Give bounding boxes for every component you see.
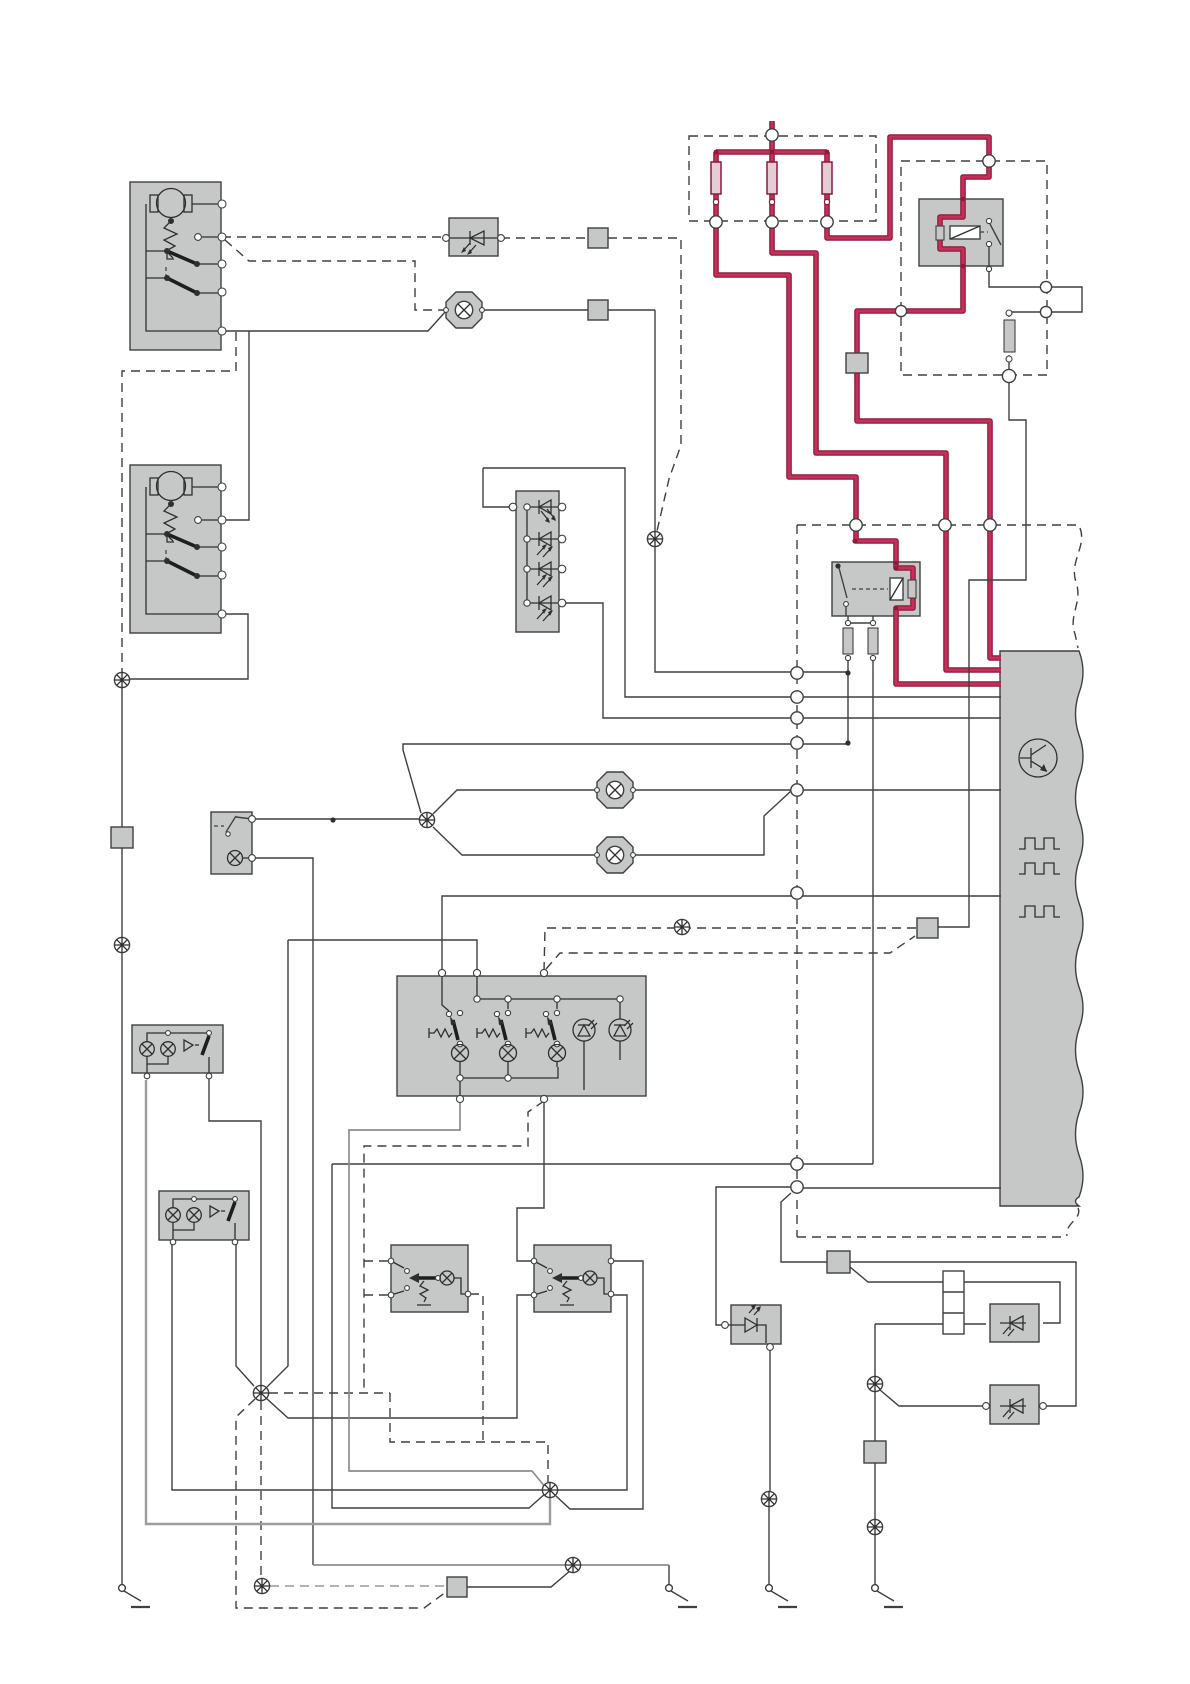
wire module in y894	[442, 896, 1001, 971]
splice C4a	[254, 1578, 269, 1593]
wire ground B lower	[768, 1507, 770, 1584]
splice gB	[761, 1491, 776, 1506]
wire fuse bus (red)	[716, 149, 827, 155]
wire to fuse F5	[1009, 312, 1040, 317]
relay K1 coil	[950, 226, 980, 239]
wire fuse F3 down	[847, 661, 849, 744]
node relay K1 in	[983, 155, 995, 167]
connector C stack	[943, 1271, 964, 1334]
wire motor box to ground bus (dashed)	[122, 332, 236, 673]
switch S2 section 3	[556, 999, 558, 1009]
wire connector to diode D7	[850, 1267, 1060, 1323]
ground G1	[119, 1585, 150, 1607]
fuse F3	[843, 628, 853, 654]
splice ground bus A	[114, 672, 129, 687]
diode D8 symbol	[1000, 1399, 1026, 1413]
wire ground C chain	[874, 1391, 876, 1584]
relay K1 link (dashed)	[980, 231, 988, 233]
wire ground bus gray y1565	[313, 1564, 669, 1566]
splice diode net	[647, 531, 662, 546]
diode unit box D0	[449, 218, 498, 256]
wire ground bus left	[121, 687, 123, 1585]
headlamp switch box S2	[397, 976, 646, 1096]
lamp H1	[595, 772, 636, 808]
diode box D7	[990, 1304, 1039, 1342]
switch box S3	[391, 1245, 468, 1312]
connector J1	[588, 228, 608, 248]
wire fuse F4 down	[872, 661, 874, 1164]
splice gC1	[867, 1376, 882, 1391]
wire loop right	[1052, 287, 1082, 312]
wire T5 to lamp	[222, 311, 446, 331]
indicator LED in S2	[573, 1019, 595, 1041]
wire splice C5 to D7	[875, 1323, 986, 1325]
node F3 out	[821, 216, 833, 228]
wire to S3 lower terminal (dashed)	[364, 1294, 391, 1296]
wire S2 lamp out (gray)	[349, 1102, 546, 1488]
wire switch feed upper (dashed)	[544, 928, 917, 971]
wire module in y1188	[797, 1187, 1001, 1189]
wire splice to connector (gray dashed)	[270, 1585, 447, 1587]
splice C4b	[565, 1557, 580, 1572]
splice C3	[542, 1482, 557, 1497]
wire S1 to splice C1	[252, 818, 420, 820]
wire S1 lamp to ground A	[252, 858, 313, 1565]
wire splice C3 to S4 upper	[556, 1261, 643, 1509]
wire bus x332 to splice C3	[332, 1164, 546, 1508]
wire splice C5 drop	[874, 1324, 876, 1377]
wire splice C2 down (dashed)	[260, 1401, 262, 1578]
wire L1 lamp to splice C3 (gray)	[146, 1080, 550, 1524]
relay K2 switch	[835, 563, 840, 568]
node relay K1 left	[895, 305, 906, 316]
connector J6	[827, 1251, 850, 1273]
wire circuit to diode D6	[716, 1187, 797, 1325]
connector J3	[846, 353, 868, 373]
wire L2 right to splice C2	[236, 1242, 254, 1386]
ground G4	[872, 1585, 903, 1607]
wire lamp H2 join	[633, 791, 791, 855]
diode box D6	[731, 1305, 781, 1344]
wire F5 to module net	[938, 381, 1026, 927]
lamp unit L1 internals	[140, 1031, 212, 1079]
torn edge below module (dashed)	[1067, 1208, 1079, 1236]
transistor symbol in module	[1019, 739, 1057, 777]
lamp in S1	[228, 851, 243, 866]
node K1 aux1	[1040, 281, 1051, 292]
diode D5-1	[527, 506, 562, 508]
node P6	[791, 887, 803, 899]
switch S3 internals	[388, 1258, 471, 1305]
ground G3	[766, 1585, 797, 1607]
instrument lamp box L1	[132, 1025, 223, 1073]
wire connector to splice (dashed)	[608, 238, 681, 531]
ground G2	[666, 1585, 697, 1607]
diode D6 symbol	[727, 1324, 745, 1326]
switch S2 section 1	[446, 1011, 451, 1016]
node P2	[791, 691, 803, 703]
relay K1 switch	[986, 218, 991, 223]
node K1 aux2	[1040, 306, 1051, 317]
torn edge above module (dashed)	[1073, 528, 1082, 648]
switch S2 top rail	[442, 973, 620, 1011]
diode box D8	[990, 1385, 1039, 1424]
control module A1	[1000, 651, 1083, 1206]
module connector boundary (dashed)	[797, 525, 1080, 1237]
relay K2 resistor	[908, 580, 916, 598]
wiper motor box M2	[130, 465, 221, 633]
relay K1 body	[919, 199, 1003, 266]
wire lamp feed down	[481, 310, 848, 672]
switch box S4	[534, 1245, 611, 1312]
wire relay K2 stub A	[848, 616, 873, 623]
fuse F5	[1004, 320, 1015, 352]
wire splice C3 to S4 lower	[558, 1295, 627, 1490]
node P8	[791, 1181, 803, 1193]
splice C1	[419, 812, 434, 827]
wire relay K1 out chain	[989, 246, 1040, 287]
relay K2 body	[832, 562, 920, 616]
wire splice C2 to ground connector (dashed)	[236, 1399, 446, 1608]
wire L2 left to splice C3	[172, 1242, 542, 1490]
wire to S3 upper terminal (dashed)	[364, 1260, 391, 1262]
wire switch feed lower (dashed)	[546, 936, 915, 969]
switch S4 internals	[531, 1258, 614, 1305]
wire S4 bottom-left to splice C2	[266, 1295, 534, 1418]
connector J5	[917, 918, 938, 938]
wire left feed to relay K2 (red)	[716, 152, 1001, 684]
node C:1	[850, 519, 862, 531]
wiper motor box M1	[130, 182, 221, 350]
fuse box boundary (dashed)	[689, 136, 876, 221]
connector J2	[588, 300, 608, 320]
instrument lamp box L2	[159, 1191, 249, 1240]
wire T2 to diode unit (dashed)	[222, 236, 446, 238]
relay K1 resistor	[936, 226, 944, 240]
wire fuse F5 tail	[1008, 355, 1010, 371]
fuse F2	[767, 162, 777, 194]
square wave symbol	[1019, 838, 1060, 849]
connector J4	[111, 827, 133, 848]
motor M2 internals	[146, 472, 226, 619]
square wave symbol	[1019, 906, 1060, 917]
node F2 out	[766, 216, 778, 228]
node 30 feed	[766, 129, 778, 141]
diode D7 symbol	[1000, 1316, 1026, 1330]
wire L1 switch to splice C2	[209, 1078, 261, 1385]
wire x288 to S2 feed	[288, 940, 477, 971]
splice gC2	[867, 1519, 882, 1534]
node P5	[791, 784, 803, 796]
relay K1 boundary (dashed)	[901, 161, 1047, 375]
splice dash net	[674, 919, 689, 934]
node P4	[791, 737, 803, 749]
wire x288 down to splice C2	[267, 940, 288, 1387]
wire diode feed loop	[483, 468, 1001, 697]
node P7	[791, 1158, 803, 1170]
wire S4 top-left up	[517, 1102, 544, 1261]
fuse F3	[822, 162, 832, 194]
wire diode pack out	[562, 603, 1001, 718]
wire diode unit to connector (dashed)	[501, 237, 588, 239]
diode D5-4	[527, 602, 562, 604]
wire 30-feed center (red)	[772, 121, 1001, 670]
lamp H0	[444, 292, 485, 328]
wire S2 to dimmer (dashed)	[364, 1101, 544, 1393]
wire T1 bus down to M2	[222, 331, 249, 520]
relay K2 link (dashed)	[852, 588, 888, 590]
wire loop to diode D8	[781, 1193, 1076, 1406]
wire connector to splice C4	[467, 1570, 571, 1587]
diode D0 symbol	[446, 237, 501, 239]
switch S2 section 2	[507, 999, 509, 1009]
connector J7	[864, 1441, 886, 1463]
wire M2 T5 to splice	[122, 614, 248, 679]
square wave symbol	[1019, 863, 1060, 874]
wire splice C1 to lamp H2	[433, 827, 597, 855]
wire right feed via relay K1 (red)	[827, 137, 1001, 658]
wire splice C1 to lamp H1	[433, 790, 597, 814]
lamp unit L2 internals	[166, 1197, 238, 1245]
switch S1 internals	[214, 825, 224, 827]
wire D6 to ground B	[769, 1348, 771, 1491]
wire S3 right to splice C3 (dashed)	[470, 1294, 483, 1442]
wire splice C2 to S3 net (dashed)	[269, 1393, 548, 1483]
fuse F4	[868, 628, 878, 654]
wire long bus y1164	[332, 1163, 873, 1165]
splice ground bus B	[114, 937, 129, 952]
switch with lamp box S1	[211, 812, 252, 874]
node P1	[791, 667, 803, 679]
lamp H2	[595, 837, 636, 873]
connector J8	[447, 1577, 467, 1597]
motor M1 internals	[146, 189, 226, 336]
diode D5-3	[527, 568, 562, 570]
relay K2 coil	[890, 578, 903, 600]
splice C2	[253, 1385, 268, 1400]
wire splice C5 to D8	[880, 1390, 984, 1406]
node C:2	[939, 519, 951, 531]
wire ground A chain	[668, 1565, 670, 1584]
wire to diode pack	[483, 468, 513, 507]
node F5 out	[1002, 369, 1015, 382]
wire T2 branch to lamp (dashed)	[225, 240, 444, 310]
diode pack box D5	[516, 491, 559, 632]
indicator LED in S2	[609, 1019, 631, 1041]
node F1 out	[710, 216, 722, 228]
diode pack rail	[526, 507, 528, 603]
fuse F1	[711, 162, 721, 194]
diode D5-2	[527, 538, 562, 540]
node C:3	[984, 519, 996, 531]
node P3	[791, 712, 803, 724]
wire splice C1 up to feed	[403, 744, 848, 813]
wire lamp H1 to module	[633, 789, 1001, 791]
